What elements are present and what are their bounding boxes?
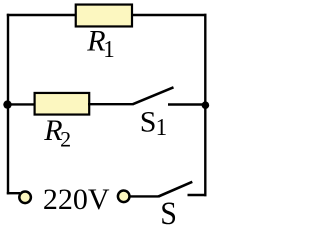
battery terminal circle right <box>118 191 130 203</box>
node: junction dot left <box>3 100 11 108</box>
wire: right terminal to S pivot <box>131 195 159 197</box>
wire: bottom-right stub (S fixed contact) <box>188 194 207 196</box>
label 220V <box>43 183 110 216</box>
svg-text:2: 2 <box>60 126 71 151</box>
svg-text:1: 1 <box>156 114 168 141</box>
label S <box>160 195 177 232</box>
svg-text:S: S <box>140 106 157 139</box>
switch S1 blade <box>133 87 174 104</box>
resistor R1 <box>76 5 132 27</box>
wire: S1 fixed contact line <box>168 103 206 105</box>
svg-text:1: 1 <box>103 36 114 63</box>
wire: top rail right segment <box>131 14 207 16</box>
wire: right rail (vertical) <box>204 14 206 196</box>
label S1 <box>140 106 157 139</box>
wire: top rail left segment <box>7 14 77 16</box>
svg-text:220V: 220V <box>43 183 110 216</box>
resistor R2 <box>35 93 90 115</box>
wire: middle rail left segment <box>8 103 36 105</box>
wire: middle rail mid segment (R2 to S1 pivot) <box>88 103 134 105</box>
switch S blade <box>158 182 192 197</box>
label R2 <box>43 114 62 147</box>
wire: bottom-left stub <box>7 192 20 194</box>
label R1 <box>86 26 105 58</box>
svg-text:S: S <box>160 195 177 227</box>
node: junction dot right <box>202 101 210 109</box>
wire: left rail (vertical) <box>7 14 9 195</box>
battery terminal circle left <box>19 192 31 204</box>
